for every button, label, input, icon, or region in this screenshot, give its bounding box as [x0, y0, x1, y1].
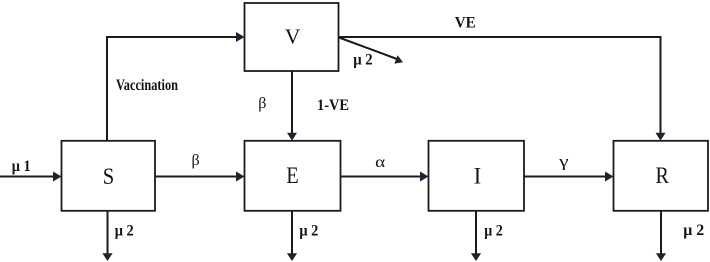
svg-text:VE: VE — [455, 14, 476, 31]
svg-text:μ 2: μ 2 — [683, 222, 704, 239]
svg-text:β: β — [258, 95, 266, 112]
svg-text:R: R — [656, 163, 670, 188]
svg-text:γ: γ — [558, 154, 569, 171]
svg-text:μ 2: μ 2 — [115, 223, 134, 240]
svg-text:E: E — [286, 163, 298, 188]
svg-text:Vaccination: Vaccination — [116, 77, 178, 94]
svg-text:α: α — [375, 154, 386, 171]
svg-text:I: I — [474, 164, 481, 189]
svg-text:β: β — [192, 152, 200, 169]
svg-text:μ 1: μ 1 — [12, 158, 31, 175]
svg-text:S: S — [103, 164, 115, 189]
svg-text:1-VE: 1-VE — [317, 97, 349, 114]
svg-text:μ 2: μ 2 — [353, 51, 373, 68]
svg-text:μ 2: μ 2 — [484, 222, 503, 239]
svg-text:μ 2: μ 2 — [299, 223, 318, 240]
svg-text:V: V — [285, 25, 301, 49]
